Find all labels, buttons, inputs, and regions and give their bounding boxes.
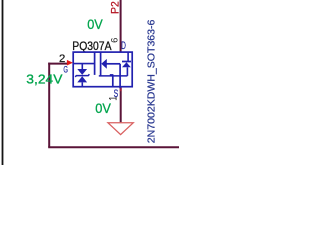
svg-text:S: S bbox=[114, 88, 119, 100]
body diode triangle bbox=[122, 62, 131, 67]
junction crimson segment S pin bbox=[120, 88, 122, 92]
svg-text:P2: P2 bbox=[110, 1, 122, 14]
mosfet PQ307A symbol box bbox=[73, 52, 132, 87]
source horizontal bbox=[106, 63, 120, 65]
wire gate horizontal bbox=[48, 63, 67, 65]
wire source to ground bbox=[120, 88, 122, 123]
body diode top lead bbox=[127, 52, 129, 61]
ground symbol bbox=[108, 123, 133, 135]
wire net P2 vertical bbox=[120, 0, 122, 52]
svg-text:0V: 0V bbox=[87, 17, 103, 33]
inner lower horizontal bbox=[99, 75, 128, 77]
tvs diode top triangle bbox=[77, 69, 87, 75]
gate lead inside bbox=[73, 63, 94, 65]
tvs bottom triangle bbox=[77, 76, 87, 82]
svg-text:3,24V: 3,24V bbox=[26, 72, 63, 87]
tvs top lead bbox=[81, 64, 83, 70]
svg-text:PQ307A: PQ307A bbox=[72, 39, 112, 53]
wire gate-net vertical bbox=[48, 63, 50, 148]
tvs bottom lead bbox=[81, 82, 83, 86]
svg-text:D: D bbox=[121, 40, 126, 52]
gate bar vertical bbox=[94, 52, 96, 75]
sheet left border bbox=[2, 0, 4, 165]
inner nub bbox=[110, 74, 114, 76]
svg-text:0V: 0V bbox=[95, 100, 111, 116]
channel bar bbox=[100, 52, 102, 76]
tvs zener bar bbox=[75, 74, 89, 77]
svg-text:6: 6 bbox=[109, 38, 120, 43]
source vertical bbox=[119, 64, 121, 89]
inner vertical right bbox=[112, 76, 114, 87]
wire bottom horizontal bbox=[48, 146, 179, 148]
svg-text:2N7002KDWH_SOT363-6: 2N7002KDWH_SOT363-6 bbox=[146, 19, 157, 143]
body diode cathode bar bbox=[122, 61, 131, 63]
gate wire red arrow bbox=[67, 60, 73, 66]
body diode bottom lead bbox=[126, 67, 128, 76]
substrate arrow bbox=[102, 60, 107, 68]
